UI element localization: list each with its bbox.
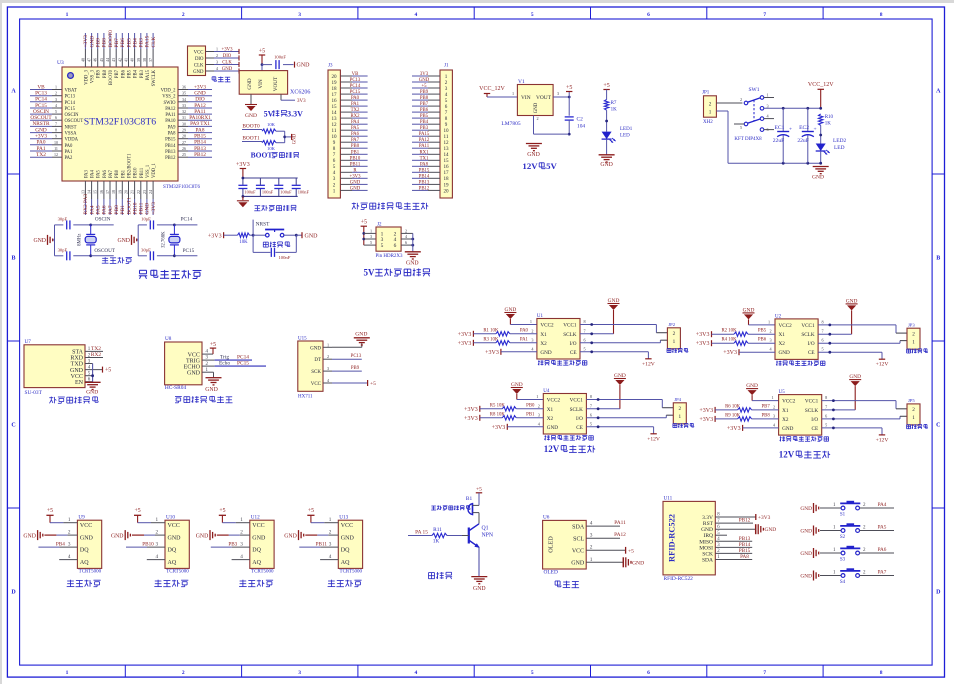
svg-text:TCRT5000: TCRT5000: [166, 570, 189, 575]
svg-text:VCC: VCC: [572, 548, 584, 554]
svg-text:17: 17: [105, 190, 110, 194]
svg-text:PB6: PB6: [758, 338, 767, 343]
svg-text:PA12: PA12: [614, 532, 626, 538]
svg-text:BOOT0: BOOT0: [242, 124, 260, 130]
wire U9 pin4: [59, 554, 77, 560]
svg-text:+5: +5: [361, 220, 367, 226]
svg-text:C: C: [936, 423, 940, 429]
svg-text:15: 15: [93, 190, 98, 194]
svg-text:34: 34: [182, 97, 186, 102]
ground symbol near U5 SCLK: [822, 374, 862, 410]
svg-text:OLED: OLED: [548, 536, 555, 553]
svg-text:R10: R10: [825, 115, 834, 120]
svg-text:1: 1: [912, 415, 915, 421]
motor driver chip U4: [543, 389, 586, 434]
svg-text:PC15: PC15: [183, 248, 195, 254]
label: display title: [555, 581, 579, 588]
svg-text:DIO: DIO: [223, 54, 232, 59]
IR tracking module U13 TCRT5000: [338, 515, 362, 575]
svg-text:GND: GND: [341, 536, 355, 542]
svg-text:PC13: PC13: [351, 354, 362, 359]
svg-text:GND: GND: [701, 527, 713, 533]
svg-text:TCRT5000: TCRT5000: [340, 570, 363, 575]
svg-text:33: 33: [182, 103, 186, 108]
connector JP1 XH2: [702, 91, 716, 126]
svg-text:AQ: AQ: [341, 560, 350, 566]
svg-text:2: 2: [68, 529, 71, 535]
svg-text:PB13: PB13: [419, 180, 430, 185]
IR tracking module U10 TCRT5000: [165, 515, 189, 575]
svg-text:4: 4: [68, 554, 71, 560]
ground symbol near U2 SCLK: [818, 298, 858, 334]
svg-text:LED: LED: [620, 134, 630, 139]
svg-text:GND: GND: [310, 346, 321, 351]
wire U10 pin4: [147, 554, 165, 560]
svg-text:6: 6: [647, 12, 650, 18]
svg-text:GND: GND: [205, 387, 218, 393]
label: IR tracking title: [67, 580, 101, 587]
svg-text:PC13: PC13: [350, 78, 361, 83]
svg-text:+5: +5: [308, 508, 314, 514]
svg-text:6: 6: [394, 243, 397, 249]
svg-text:2: 2: [405, 228, 407, 233]
svg-text:GND: GND: [779, 350, 790, 356]
svg-text:NRST: NRST: [65, 125, 77, 130]
svg-text:DIO: DIO: [195, 57, 204, 62]
svg-text:3: 3: [329, 541, 332, 547]
svg-text:5: 5: [370, 240, 372, 245]
svg-text:6: 6: [590, 412, 592, 417]
svg-text:PB6: PB6: [420, 108, 429, 113]
svg-text:PC14: PC14: [35, 97, 47, 103]
resistor R9 10K input PB8: [699, 413, 778, 423]
svg-text:4: 4: [415, 12, 418, 18]
svg-text:+3V3: +3V3: [485, 350, 499, 356]
svg-text:BOOT1: BOOT1: [242, 136, 260, 142]
svg-text:GND: GND: [782, 426, 793, 432]
svg-text:RFID-RC522: RFID-RC522: [668, 514, 677, 562]
svg-text:37: 37: [148, 58, 153, 62]
svg-text:GND: GND: [812, 175, 824, 181]
svg-text:PA1: PA1: [351, 102, 360, 107]
svg-text:TX2: TX2: [36, 152, 46, 158]
label: 12V DC motor title (right): [779, 450, 830, 460]
wire JP1 pin1 to ground rail: [716, 111, 820, 165]
svg-text:PB9: PB9: [420, 90, 429, 95]
svg-text:PB12: PB12: [194, 152, 206, 158]
svg-text:GND: GND: [89, 36, 95, 48]
svg-text:7: 7: [822, 329, 824, 334]
svg-text:B1: B1: [466, 496, 473, 502]
svg-text:PB7: PB7: [114, 38, 120, 48]
label: buzzer title: [429, 572, 453, 579]
svg-text:+3V3: +3V3: [464, 407, 478, 413]
svg-text:PC15: PC15: [35, 103, 47, 109]
svg-text:PA4: PA4: [91, 169, 96, 178]
svg-text:OSCOUT: OSCOUT: [30, 115, 52, 121]
svg-text:GND: GND: [196, 533, 209, 539]
svg-text:LED1: LED1: [620, 127, 633, 132]
svg-text:PB7: PB7: [761, 404, 770, 409]
wire +3V3 to GND pin4: [485, 346, 537, 356]
svg-text:5: 5: [822, 347, 824, 352]
svg-text:DT: DT: [314, 358, 321, 363]
svg-text:PB3: PB3: [228, 541, 237, 547]
display U6 OLED: [543, 515, 593, 576]
svg-text:PB14: PB14: [194, 140, 206, 146]
ground to U10 pin2: [111, 529, 165, 540]
svg-text:100nF: 100nF: [298, 190, 310, 195]
svg-text:3: 3: [766, 103, 768, 108]
connector JP2 motor socket: [667, 322, 680, 349]
wire +5 to U13 pin1: [307, 508, 338, 523]
svg-text:5V: 5V: [364, 267, 376, 277]
svg-text:PB13: PB13: [739, 536, 751, 542]
svg-text:S4: S4: [840, 580, 846, 585]
svg-text:2: 2: [912, 332, 915, 338]
svg-text:PA6: PA6: [103, 169, 108, 178]
wire +5 to U12 pin1: [219, 508, 250, 523]
svg-text:100nF: 100nF: [262, 190, 274, 195]
svg-text:7: 7: [825, 404, 827, 409]
svg-text:B: B: [936, 256, 940, 262]
svg-text:6: 6: [822, 338, 824, 343]
svg-text:PB11: PB11: [140, 167, 145, 178]
svg-text:12V: 12V: [522, 161, 538, 171]
regulator U? XC6206: [239, 49, 310, 120]
connector J2 Pin HDR2X3 backup power: [361, 220, 421, 267]
svg-text:46: 46: [93, 58, 98, 62]
svg-text:PA10: PA10: [165, 119, 176, 124]
svg-text:PB3: PB3: [140, 69, 145, 78]
svg-text:PA3: PA3: [84, 169, 89, 178]
svg-text:VCC: VCC: [311, 382, 322, 387]
svg-text:RX2 PA3: RX2 PA3: [83, 194, 89, 215]
svg-text:+5: +5: [421, 84, 427, 89]
svg-text:I/O: I/O: [576, 416, 583, 422]
svg-text:2: 2: [182, 670, 185, 676]
wires U8 to +5 / PC14 / PC15 / GND: [202, 342, 266, 393]
label: 5V external backup power title: [364, 267, 431, 277]
svg-text:C: C: [11, 423, 15, 429]
svg-text:PB12: PB12: [419, 186, 430, 191]
MCU U3 STM32F103C8T6: [57, 60, 200, 190]
resistor R3 10K input PA1: [458, 337, 537, 347]
svg-text:48: 48: [80, 58, 85, 62]
svg-text:PB15: PB15: [194, 134, 206, 140]
svg-text:PB3: PB3: [420, 126, 429, 131]
svg-text:9: 9: [55, 134, 57, 139]
svg-text:VDD_1: VDD_1: [152, 163, 157, 178]
svg-text:36: 36: [182, 85, 186, 90]
svg-text:GND: GND: [632, 560, 644, 566]
label: crystal circuit title: [102, 257, 132, 263]
svg-text:PB4: PB4: [134, 69, 139, 78]
svg-text:IRQ: IRQ: [704, 533, 714, 539]
svg-text:10K: 10K: [239, 240, 248, 245]
label: IR tracking title: [239, 580, 273, 587]
svg-text:A: A: [936, 89, 941, 95]
svg-text:12: 12: [54, 152, 58, 157]
connector JP3 motor socket: [907, 322, 920, 349]
svg-text:VCC_12V: VCC_12V: [479, 86, 505, 92]
svg-text:1: 1: [673, 339, 676, 345]
resistor R1 10K input PA0: [458, 328, 537, 338]
svg-text:PA6: PA6: [878, 547, 887, 553]
svg-text:+3V3: +3V3: [727, 426, 741, 432]
ground to U9 pin2: [23, 529, 77, 540]
svg-text:PB0: PB0: [115, 169, 120, 178]
svg-text:5: 5: [55, 109, 57, 114]
svg-text:PA1: PA1: [37, 146, 46, 152]
svg-text:PA2: PA2: [65, 156, 74, 161]
svg-text:NRSTR: NRSTR: [32, 121, 50, 127]
svg-text:SCL: SCL: [573, 536, 584, 542]
svg-text:VB: VB: [352, 72, 359, 77]
load cell chip U15 HX711: [298, 337, 332, 400]
svg-text:PA5: PA5: [96, 205, 102, 214]
svg-text:JP2: JP2: [668, 322, 675, 327]
svg-text:PA15: PA15: [419, 132, 430, 137]
svg-text:1: 1: [329, 517, 332, 523]
svg-text:24: 24: [148, 190, 153, 194]
svg-text:3: 3: [445, 86, 448, 92]
wire PB4 to U9 pin3: [38, 541, 77, 547]
svg-text:I/O: I/O: [811, 417, 818, 423]
svg-text:PA12: PA12: [165, 107, 176, 112]
svg-text:18: 18: [443, 176, 449, 182]
svg-text:GND: GND: [194, 91, 206, 97]
wire VCC1 pin8 to connector: [818, 319, 907, 333]
svg-text:1: 1: [536, 394, 538, 399]
svg-text:29: 29: [182, 128, 186, 133]
svg-text:4: 4: [415, 670, 418, 676]
svg-text:PB1: PB1: [526, 412, 535, 417]
svg-text:1: 1: [512, 91, 514, 96]
ground to U13 pin2: [284, 529, 338, 540]
svg-text:+5: +5: [135, 508, 141, 514]
svg-text:PC14: PC14: [181, 217, 193, 223]
wire VCC1 pin8 to connector: [822, 395, 907, 409]
svg-text:EC1: EC1: [775, 125, 785, 131]
svg-text:3.3V: 3.3V: [287, 109, 303, 118]
svg-text:30: 30: [182, 121, 186, 126]
svg-text:1: 1: [66, 670, 69, 676]
svg-text:3V3: 3V3: [420, 72, 429, 77]
motor driver chip U5: [779, 390, 822, 435]
svg-text:JP1: JP1: [702, 91, 710, 96]
svg-text:PA8: PA8: [168, 132, 177, 137]
svg-text:+5: +5: [603, 83, 609, 89]
svg-text:XC6206: XC6206: [290, 90, 310, 96]
buzzer B1 5V active: [431, 486, 482, 524]
svg-text:U9: U9: [78, 515, 85, 521]
svg-text:A: A: [11, 89, 16, 95]
svg-text:2: 2: [773, 404, 775, 409]
svg-text:6: 6: [583, 337, 585, 342]
crystal circuit 8MHz: [33, 217, 115, 261]
svg-text:GND: GND: [800, 529, 812, 535]
svg-text:PA5: PA5: [878, 524, 887, 530]
svg-text:3: 3: [381, 237, 384, 243]
svg-text:1: 1: [327, 342, 329, 347]
svg-text:18: 18: [331, 86, 337, 92]
svg-text:41: 41: [124, 58, 129, 62]
svg-text:PA0: PA0: [520, 328, 529, 333]
svg-text:PA9: PA9: [168, 125, 177, 130]
reset circuit NRST: [208, 220, 318, 260]
ground symbol near U5 pin1: [746, 383, 779, 401]
svg-text:PA7: PA7: [108, 205, 114, 214]
transistor Q1 NPN: [462, 524, 494, 592]
svg-text:BOOT1: BOOT1: [126, 197, 132, 215]
wire PB10 to U10 pin3: [126, 541, 165, 547]
wires U6 to PA11/PA12/+5/GND: [586, 520, 644, 567]
label: IR tracking title: [154, 580, 188, 587]
svg-text:DIO: DIO: [195, 97, 205, 103]
svg-text:8: 8: [583, 319, 585, 324]
svg-text:+5: +5: [47, 508, 53, 514]
svg-text:12V: 12V: [779, 450, 795, 460]
capacitor EC2 22uF: [797, 108, 816, 163]
svg-text:PA1: PA1: [65, 150, 74, 155]
svg-text:PA7: PA7: [109, 169, 114, 178]
svg-text:SDA: SDA: [702, 558, 713, 564]
svg-text:SCLK: SCLK: [801, 332, 815, 338]
svg-text:2: 2: [740, 97, 742, 102]
svg-text:SCK: SCK: [702, 551, 713, 557]
svg-text:13: 13: [443, 146, 449, 152]
svg-text:PB8: PB8: [102, 38, 108, 48]
svg-text:VCC1: VCC1: [805, 399, 819, 405]
svg-text:3: 3: [370, 234, 372, 239]
svg-text:D: D: [11, 590, 16, 596]
svg-text:39: 39: [136, 58, 141, 62]
svg-text:DQ: DQ: [341, 548, 350, 554]
svg-text:2: 2: [216, 53, 218, 58]
svg-text:+: +: [789, 127, 792, 133]
svg-text:22uF: 22uF: [797, 138, 809, 144]
svg-text:XH2: XH2: [703, 120, 713, 125]
svg-text:PB0: PB0: [114, 205, 120, 215]
svg-text:4: 4: [156, 554, 159, 560]
svg-text:100nF: 100nF: [279, 255, 291, 260]
svg-text:LED: LED: [834, 145, 845, 151]
svg-text:PB1: PB1: [121, 169, 126, 178]
svg-text:TX2: TX2: [351, 108, 360, 113]
label: 12V to 5V title: [522, 161, 557, 171]
svg-text:CE: CE: [812, 426, 819, 432]
svg-text:20: 20: [443, 188, 449, 194]
svg-text:PB10: PB10: [132, 202, 138, 214]
svg-text:+3V3: +3V3: [458, 341, 472, 347]
svg-text:22uF: 22uF: [773, 138, 785, 144]
wire U13 pin4: [320, 554, 338, 560]
svg-text:104: 104: [577, 123, 585, 129]
svg-text:J1: J1: [444, 64, 449, 69]
resistor R11 1K from PA15: [408, 527, 462, 545]
svg-text:GND: GND: [350, 186, 361, 191]
svg-text:1: 1: [766, 93, 768, 98]
svg-text:PB15: PB15: [739, 548, 751, 554]
svg-text:PB12: PB12: [165, 156, 176, 161]
svg-text:+3V3: +3V3: [696, 341, 710, 347]
svg-text:C2: C2: [577, 117, 584, 123]
svg-text:10: 10: [54, 140, 58, 145]
svg-text:PB8: PB8: [103, 69, 108, 78]
svg-text:PB5: PB5: [128, 69, 133, 78]
svg-text:PB9: PB9: [97, 69, 102, 78]
svg-text:5: 5: [740, 125, 742, 130]
svg-text:3: 3: [333, 176, 336, 182]
svg-text:+3V3: +3V3: [350, 174, 362, 179]
svg-text:PB10: PB10: [350, 156, 361, 161]
svg-text:1: 1: [709, 109, 712, 115]
svg-text:4: 4: [55, 103, 57, 108]
svg-text:26: 26: [182, 146, 186, 151]
svg-text:DQ: DQ: [80, 548, 89, 554]
svg-text:1: 1: [68, 517, 71, 523]
svg-text:+12V: +12V: [876, 437, 889, 443]
svg-text:10K: 10K: [267, 122, 276, 127]
svg-text:PA0: PA0: [37, 140, 46, 146]
svg-text:U10: U10: [166, 515, 175, 521]
wire +3V3 to GND pin4: [723, 347, 775, 357]
svg-text:+5: +5: [476, 486, 482, 492]
svg-text:GND: GND: [252, 536, 266, 542]
svg-text:S2: S2: [840, 535, 846, 540]
svg-text:PB10: PB10: [142, 541, 154, 547]
svg-text:2: 2: [709, 101, 712, 107]
resistor R2 10K input PB5: [696, 329, 775, 339]
label: single-bridge motor driver chip: [776, 361, 825, 366]
svg-text:CE: CE: [808, 350, 815, 356]
svg-text:VCC1: VCC1: [570, 398, 584, 404]
svg-text:OSCOUT: OSCOUT: [94, 248, 116, 254]
svg-text:GND: GND: [419, 78, 430, 83]
svg-text:GND: GND: [111, 533, 124, 539]
svg-text:AQ: AQ: [252, 560, 261, 566]
svg-text:4: 4: [329, 554, 332, 560]
svg-text:4: 4: [394, 237, 397, 243]
svg-text:1K: 1K: [611, 108, 618, 113]
svg-text:PA4: PA4: [878, 502, 887, 508]
svg-text:2: 2: [673, 331, 676, 337]
svg-text:PA7: PA7: [351, 138, 360, 143]
svg-text:PA15: PA15: [145, 35, 151, 47]
svg-text:8: 8: [333, 146, 336, 152]
svg-text:45: 45: [99, 58, 104, 62]
svg-text:1: 1: [240, 517, 243, 523]
svg-text:VBAT: VBAT: [65, 89, 77, 94]
svg-text:8: 8: [880, 670, 883, 676]
svg-text:30pF: 30pF: [58, 217, 68, 222]
wire +5 and GND for U7: [85, 364, 112, 396]
svg-text:GND: GND: [284, 533, 297, 539]
svg-text:2: 2: [156, 529, 159, 535]
svg-text:VCC: VCC: [71, 374, 83, 380]
svg-text:X1: X1: [779, 332, 786, 338]
svg-text:20: 20: [124, 190, 129, 194]
svg-text:3: 3: [769, 338, 771, 343]
svg-text:PA0: PA0: [351, 96, 360, 101]
svg-text:VCC2: VCC2: [540, 323, 554, 329]
svg-text:U3: U3: [57, 60, 64, 66]
svg-text:3: 3: [538, 412, 540, 417]
IR tracking module U12 TCRT5000: [250, 515, 274, 575]
svg-text:PB12: PB12: [739, 518, 751, 524]
svg-text:PA6: PA6: [102, 205, 108, 214]
